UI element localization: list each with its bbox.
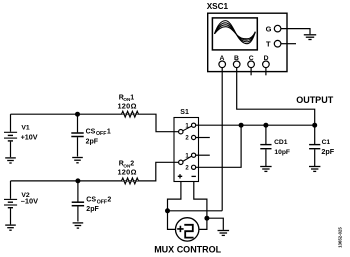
svg-text:2: 2 [130, 161, 134, 168]
op-amp U1 [207, 2, 287, 72]
sine trace 3 [215, 25, 256, 40]
svg-text:OUTPUT: OUTPUT [296, 95, 334, 105]
node junction plus-A [166, 209, 170, 213]
wire ground link [207, 218, 223, 230]
ground CD1 [260, 167, 271, 172]
sine trace 4 [215, 27, 256, 39]
switch S1 body [174, 118, 199, 182]
svg-text:T: T [266, 39, 271, 48]
svg-text:2: 2 [185, 136, 189, 142]
svg-text:120Ω: 120Ω [118, 168, 137, 177]
label CSOFF2 [86, 197, 111, 206]
wire A to mux control node [221, 68, 223, 211]
ground mux [218, 231, 230, 236]
wire D stub [265, 68, 267, 76]
wire S1 minus pin to source [194, 182, 207, 230]
wire output bus [196, 124, 315, 126]
svg-text:13652-025: 13652-025 [338, 227, 343, 248]
clock source square wave glyph [184, 225, 193, 238]
svg-text:1: 1 [107, 128, 111, 135]
svg-text:MUX CONTROL: MUX CONTROL [154, 244, 221, 254]
switch S1 bottom throw 2 [192, 165, 196, 169]
pin T terminal [274, 40, 281, 47]
capacitor C1 [309, 125, 320, 166]
svg-text:S1: S1 [180, 109, 189, 116]
svg-text:2: 2 [185, 166, 189, 172]
capacitor CSOFF1 [71, 114, 83, 156]
sine trace 1 [215, 21, 256, 44]
wire top throw 2 stub [196, 137, 210, 139]
pin G terminal [274, 25, 281, 32]
pin A terminal [219, 61, 226, 68]
ground V1 [5, 158, 16, 163]
svg-text:V1: V1 [21, 125, 30, 132]
wire C stub [250, 68, 252, 76]
voltage source V2 [4, 181, 17, 225]
svg-text:CS: CS [86, 197, 96, 204]
label RON1 [119, 94, 134, 102]
node junction minus-ground [205, 216, 209, 220]
svg-text:2pF: 2pF [321, 147, 334, 156]
node junction rail-CSOFF2 [76, 179, 80, 183]
node junction bus-S1pin2 [239, 123, 243, 127]
clock source V3 body [176, 218, 199, 241]
svg-text:2: 2 [107, 197, 111, 204]
pin D terminal [263, 61, 270, 68]
svg-text:–10V: –10V [21, 197, 38, 206]
ground CSOFF1 [72, 158, 83, 163]
svg-text:2pF: 2pF [86, 206, 99, 213]
resistor RON1 [122, 111, 139, 117]
switch S1 top arm [183, 126, 192, 131]
switch S1 bottom throw 1 [192, 153, 196, 157]
svg-text:2pF: 2pF [86, 139, 99, 146]
ground C1 [309, 167, 320, 172]
wire S1 plus pin to source [168, 182, 181, 230]
svg-text:OFF: OFF [96, 131, 106, 137]
node junction bus-C1 [313, 123, 317, 127]
resistor RON2 [122, 178, 139, 184]
label CSOFF1 [86, 128, 111, 137]
wire G to ground [281, 29, 310, 35]
svg-text:+10V: +10V [21, 132, 38, 141]
svg-text:G: G [266, 24, 272, 33]
ground V2 [5, 225, 16, 230]
svg-text:OFF: OFF [97, 200, 107, 206]
wire bottom rail V2 to S1 pole [11, 162, 179, 181]
node junction rail-CSOFF1 [76, 112, 80, 116]
svg-text:CD1: CD1 [274, 139, 288, 146]
ground scope [304, 35, 316, 40]
oscilloscope screen [212, 18, 257, 50]
label S1 minus pin [192, 175, 196, 177]
wire bottom throw 1 stub [196, 154, 210, 156]
svg-text:1: 1 [185, 153, 189, 159]
switch S1 top throw 1 [192, 123, 196, 127]
capacitor CSOFF2 [72, 181, 84, 222]
switch S1 top pole [179, 130, 183, 134]
svg-text:10pF: 10pF [274, 149, 290, 156]
switch S1 bottom arm [183, 156, 192, 161]
capacitor CD1 [260, 125, 271, 166]
svg-text:CS: CS [86, 128, 96, 135]
wire B to output [237, 68, 315, 126]
node junction bus-CD1 [264, 123, 268, 127]
switch S1 bottom pole [179, 160, 183, 164]
switch S1 top throw 2 [192, 135, 196, 139]
clock source plus sign [177, 226, 183, 232]
voltage source V1 [4, 114, 17, 157]
ground CSOFF2 [73, 223, 84, 228]
svg-text:C1: C1 [322, 139, 331, 146]
sine trace 2 [215, 23, 256, 42]
svg-text:XSC1: XSC1 [207, 2, 229, 11]
wire top rail V1 to S1 pole [11, 114, 179, 132]
svg-text:120Ω: 120Ω [118, 102, 137, 111]
svg-text:1: 1 [130, 94, 134, 101]
label RON2 [119, 161, 134, 169]
oscilloscope XSC1 body [208, 13, 287, 71]
wire S1 bottom throw 2 to bus [196, 125, 241, 167]
wire A link [168, 210, 223, 212]
pin B terminal [233, 61, 240, 68]
wire T stub [281, 43, 296, 45]
svg-text:1: 1 [185, 123, 189, 129]
pin C terminal [248, 61, 255, 68]
label S1 plus pin [178, 174, 182, 178]
